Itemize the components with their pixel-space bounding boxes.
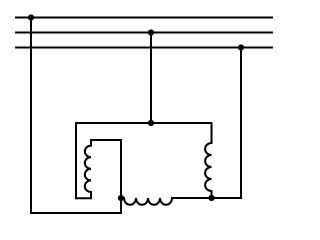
node B junction dot [118,195,124,201]
wire from L3 down right side to node C [212,48,242,199]
junction dot at node D (top bus / L2 drop) [148,120,154,126]
wire from L2 down to winding top bus [150,33,152,124]
wire lead bottom winding right to node C [172,197,212,199]
inductor bottom winding [124,198,172,205]
wire lead right winding bottom to node C [211,191,213,198]
junction dot on L2 [148,29,154,35]
inductor right winding [205,143,211,191]
wire from L1 down left side, along bottom, up to node B [31,18,121,214]
wire from left winding top to node B [91,140,121,198]
winding top bus wire [76,122,212,124]
inductor left winding [85,146,91,192]
junction dot on L1 [28,14,34,20]
bus line L3 [16,47,272,49]
wire left leg of left winding [76,123,91,198]
junction dot on L3 [238,44,244,50]
bus line L2 [16,32,272,34]
node C junction dot [208,195,214,201]
wire lead bottom winding left [121,197,124,199]
bus line L1 [16,17,272,19]
wire lead right winding top [211,123,213,143]
